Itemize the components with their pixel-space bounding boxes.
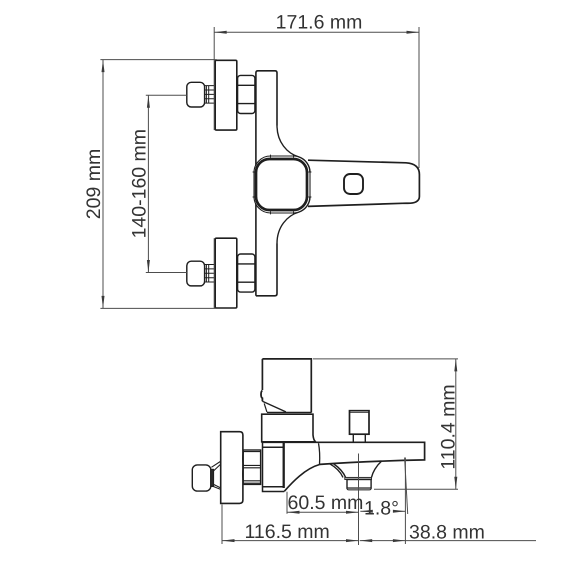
dim 110.4 line	[455, 359, 457, 489]
dim 60.5 line	[287, 511, 359, 513]
ext line vertical x405	[404, 458, 406, 545]
dim 38.8 line + underline	[360, 540, 536, 542]
dim 116.5 line	[222, 540, 359, 542]
svg-text:140-160 mm: 140-160 mm	[129, 129, 151, 238]
svg-text:209 mm: 209 mm	[83, 149, 105, 219]
dim 60.5 ext left	[286, 492, 288, 514]
arrow 110.4 top	[454, 359, 457, 372]
wall flange top	[215, 60, 237, 130]
svg-text:60.5 mm: 60.5 mm	[288, 492, 364, 514]
eccentric cap top	[187, 82, 205, 107]
valve body	[262, 414, 316, 442]
dim 209 ext top	[100, 59, 216, 61]
arrow 116.5 right	[346, 539, 359, 542]
svg-text:110.4 mm: 110.4 mm	[438, 384, 460, 469]
lever button	[344, 174, 363, 194]
arrow 140-160 top	[147, 95, 150, 108]
dim 209 ext bottom	[100, 307, 216, 309]
dim 110.4 ext top	[313, 358, 458, 360]
knob ring ticks	[253, 155, 312, 215]
body flare bottom	[277, 197, 310, 244]
thread top	[205, 86, 216, 104]
arrow 116.5 left	[222, 539, 235, 542]
handle left bump	[261, 391, 262, 402]
arrow 1.8 right	[393, 510, 406, 513]
mounting plate column	[256, 71, 277, 296]
dim 140-160 line	[147, 95, 149, 272]
spout centerline	[358, 454, 360, 546]
handle block	[262, 359, 311, 413]
svg-text:116.5 mm: 116.5 mm	[245, 521, 330, 543]
diverter knob	[350, 411, 370, 435]
dim 209 line	[102, 60, 104, 309]
dim 140-160 ext bottom	[146, 272, 187, 274]
eccentric collar	[211, 469, 214, 486]
svg-text:38.8 mm: 38.8 mm	[409, 522, 485, 544]
dim 140-160 ext top	[146, 94, 187, 96]
arrow 60.5 left	[287, 511, 300, 514]
diverter stem	[353, 434, 365, 442]
aerator body	[347, 480, 371, 489]
arrow 209 top	[102, 60, 105, 73]
dim 110.4 ext bottom	[374, 488, 458, 490]
arrow 1.8 left	[360, 510, 373, 513]
nut bottom	[238, 254, 255, 292]
dim 116.5 ext left	[221, 505, 223, 545]
thread bottom	[205, 265, 216, 283]
svg-text:171.6 mm: 171.6 mm	[276, 12, 363, 34]
aerator top ring band	[345, 477, 372, 479]
handle bottom wedge	[264, 403, 267, 412]
dim 1.8 left seg	[360, 510, 365, 512]
dim 171.6 ext right	[418, 27, 420, 168]
eccentric cap bottom	[187, 261, 205, 286]
arrow 110.4 bottom	[454, 477, 457, 490]
dim 171.6 line	[214, 31, 419, 33]
wall flange bottom	[215, 238, 237, 308]
arrow 171.6 right	[407, 31, 420, 34]
spout bar top	[262, 442, 425, 464]
arrow 38.8 left	[360, 539, 373, 542]
handle bottom slant	[262, 401, 286, 412]
spout left block	[263, 443, 285, 492]
arrow 171.6 left	[214, 31, 227, 34]
handle bottom edge	[267, 411, 311, 413]
svg-text:1.8°: 1.8°	[364, 498, 399, 520]
knob inner square	[256, 159, 307, 210]
arrow 140-160 bottom	[147, 260, 150, 273]
lever arm	[308, 160, 419, 206]
nut top	[238, 75, 255, 113]
body flare top	[277, 126, 310, 173]
wall flange (side)	[221, 432, 243, 504]
arrow 209 bottom	[102, 296, 105, 309]
nut (side)	[243, 450, 261, 484]
aerator bottom band	[347, 488, 371, 490]
bell left inner	[334, 464, 346, 477]
arrow 38.8 right	[393, 539, 406, 542]
knob outer ring	[254, 156, 310, 213]
spout neck contour	[319, 443, 320, 464]
slanted 1.8deg line	[405, 458, 408, 515]
diverter knob inner line	[350, 412, 370, 414]
dim 1.8 right seg	[398, 510, 405, 512]
eccentric cap (side)	[192, 465, 211, 491]
dim 171.6 ext left	[213, 27, 215, 130]
bell left outer	[330, 464, 344, 478]
bell right	[372, 462, 382, 478]
arrow 60.5 right	[346, 511, 359, 514]
spout sweep curve	[284, 464, 320, 491]
eccentric thread diagonals	[211, 462, 220, 490]
